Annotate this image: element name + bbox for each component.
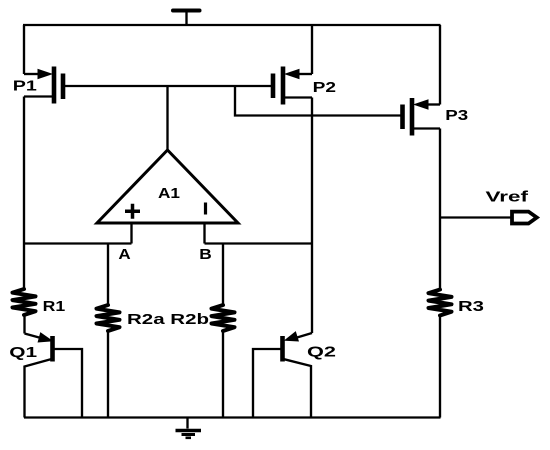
wire P2 drain down through node B to Q2 emitter [311, 98, 313, 334]
wire P3 source from rail [439, 25, 441, 105]
svg-text:Q1: Q1 [9, 344, 37, 361]
transistor P3 [403, 98, 441, 136]
wire op-amp output up to gate line [166, 86, 168, 151]
svg-text:Vref: Vref [486, 189, 530, 206]
svg-text:B: B [199, 246, 212, 263]
wire left vertical from rail to P1 source [23, 25, 25, 74]
wire R3 to ground rail [439, 316, 441, 418]
svg-text:P2: P2 [313, 79, 336, 96]
wire gate tap down and across to P3 gate [235, 86, 401, 116]
wire R1 to Q1 emitter [23, 315, 25, 334]
wire top supply rail [23, 24, 441, 26]
supply symbol VDD [173, 11, 200, 26]
svg-text:A1: A1 [158, 185, 180, 202]
wire P2 source from rail [311, 25, 313, 74]
ground symbol [176, 418, 202, 438]
svg-text:R3: R3 [458, 298, 484, 315]
svg-text:A: A [118, 246, 130, 263]
wire R2b to ground rail [222, 331, 224, 418]
resistor R2a [97, 305, 120, 331]
op-amp minus sign (rotated) [204, 203, 207, 215]
wire node A down to R2a [107, 244, 109, 306]
wire node A horizontal [23, 242, 132, 244]
transistor P1 [24, 67, 63, 104]
svg-text:P1: P1 [13, 78, 37, 95]
wire op-amp plus input stub [130, 223, 132, 244]
wire node B down to R2b [222, 244, 224, 306]
resistor R1 [13, 289, 36, 315]
wire gate line P1 to P2 [65, 85, 271, 87]
resistor R2b [212, 305, 235, 331]
resistor R3 [429, 290, 452, 316]
svg-text:P3: P3 [445, 107, 468, 124]
wire P1 drain down left side to node A and R1 [23, 97, 25, 290]
wire node B horizontal [205, 242, 313, 244]
wire R2a to ground rail [107, 331, 109, 418]
transistor Q2 [253, 332, 312, 418]
Vref output port [512, 212, 537, 224]
op-amp A1 triangle [97, 150, 238, 223]
svg-text:Q2: Q2 [307, 344, 336, 361]
wire bottom ground rail [24, 416, 441, 418]
wire Vref output [440, 216, 511, 218]
svg-text:R2a R2b: R2a R2b [127, 311, 209, 328]
transistor Q1 [25, 333, 83, 418]
wire op-amp minus input stub [203, 223, 205, 244]
op-amp plus sign [125, 204, 140, 219]
transistor P2 [273, 67, 312, 105]
svg-text:R1: R1 [43, 298, 66, 315]
wire P3 drain down to Vref node and R3 [439, 129, 441, 290]
